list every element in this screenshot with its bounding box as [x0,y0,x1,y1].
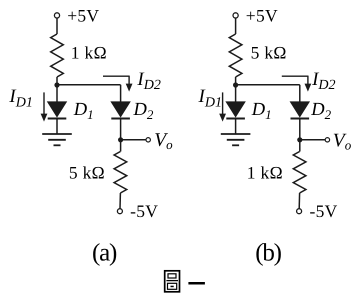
svg-text:1 kΩ: 1 kΩ [71,42,107,62]
svg-text:D2: D2 [133,100,154,122]
svg-text:ID2: ID2 [136,69,160,93]
svg-text:D2: D2 [310,100,331,122]
svg-text:ID1: ID1 [198,86,222,111]
svg-text:D1: D1 [251,100,272,122]
svg-text:ID1: ID1 [8,86,32,111]
svg-text:(a): (a) [92,240,117,267]
svg-text:5 kΩ: 5 kΩ [69,163,105,183]
svg-text:D1: D1 [73,100,94,122]
svg-text:(b): (b) [255,240,281,267]
svg-text:1 kΩ: 1 kΩ [247,163,283,183]
svg-text:5 kΩ: 5 kΩ [251,42,287,62]
svg-text:Vo: Vo [154,130,173,152]
svg-text:ID2: ID2 [311,69,335,93]
svg-text:Vo: Vo [333,131,352,153]
svg-text:+5V: +5V [246,5,278,25]
svg-text:-5V: -5V [310,201,338,221]
svg-text:+5V: +5V [67,5,99,25]
svg-text:-5V: -5V [130,201,158,221]
